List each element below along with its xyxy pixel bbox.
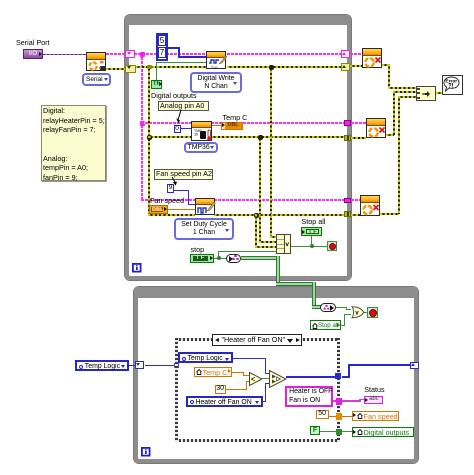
svg-text:v: v [355, 309, 359, 316]
svg-text:<: < [251, 377, 255, 384]
svg-text:36: 36 [194, 132, 198, 136]
svg-text:?!: ?! [448, 84, 454, 90]
svg-text:2-in: 2-in [211, 64, 218, 69]
